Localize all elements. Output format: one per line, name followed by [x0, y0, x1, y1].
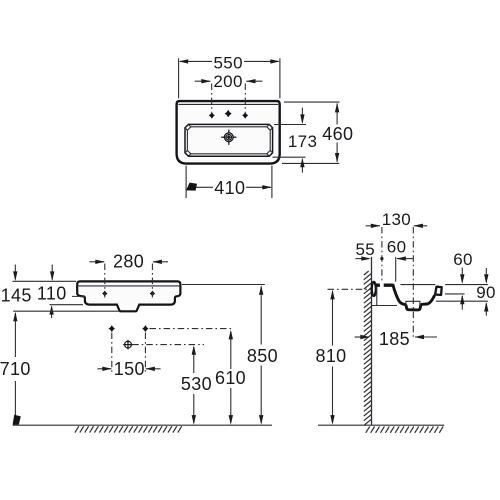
svg-text:530: 530 — [181, 374, 212, 394]
centerline horizontal at 344.6 — [132, 344, 204, 346]
dim 550 line and arrows — [180, 60, 279, 62]
dim 410 mangled left arrow — [186, 183, 197, 191]
faucet centerline left — [211, 84, 213, 113]
dim 280 centerline right — [151, 264, 153, 298]
dim 280 line and arrows — [89, 261, 104, 263]
dim 185 line and arrows — [355, 336, 368, 338]
dim 410 extension lines — [185, 166, 187, 199]
basin top-view inner deck line — [178, 103, 278, 105]
svg-text:60: 60 — [387, 237, 407, 256]
svg-text:145: 145 — [1, 285, 32, 305]
side hole centerline vertical — [381, 227, 383, 285]
drain hole symbol (circle-cross) — [123, 340, 133, 350]
basin inner bowl inner octagon — [187, 127, 270, 154]
dim 173 extension lines — [274, 124, 306, 126]
fixing hole lower-left — [109, 325, 115, 332]
dim 610 line and arrows — [230, 332, 232, 370]
svg-text:150: 150 — [114, 359, 145, 379]
dim 410 right arrow — [262, 185, 272, 189]
dim 60 mid arrow — [397, 258, 413, 260]
left floor line — [13, 424, 272, 426]
faucet hole left — [209, 112, 215, 119]
dim 550 extension lines — [178, 58, 180, 98]
dim 530 line and arrows — [193, 347, 195, 373]
svg-text:55: 55 — [355, 240, 375, 259]
wall hatching — [364, 271, 372, 425]
right ext line A (rim top level) — [400, 284, 435, 286]
svg-text:130: 130 — [382, 210, 411, 229]
side profile bowl outline — [393, 284, 435, 310]
svg-text:810: 810 — [315, 346, 346, 366]
svg-text:200: 200 — [213, 72, 242, 91]
front fixing hole left — [102, 291, 107, 297]
svg-text:410: 410 — [214, 178, 245, 198]
svg-text:90: 90 — [476, 283, 496, 302]
fixing hole lower-right — [142, 325, 148, 332]
svg-text:460: 460 — [322, 124, 353, 144]
svg-text:710: 710 — [0, 359, 31, 379]
dim 60 mid extension line — [395, 257, 397, 282]
centerline horizontal at 328.6 — [150, 328, 233, 330]
dim 60 right arrows — [461, 268, 463, 282]
dim 55/60 shared dot terminator — [380, 257, 383, 260]
dim 150 line and arrows — [97, 368, 111, 370]
dim 110 bottom line — [50, 304, 84, 306]
dim 460 line and arrows — [336, 104, 338, 125]
dim 710 line and arrows — [14, 313, 16, 357]
side profile deck — [375, 284, 393, 287]
svg-text:610: 610 — [215, 368, 246, 388]
dim 710 mangled bottom arrow — [13, 415, 21, 425]
dim 55 arrow — [355, 258, 368, 260]
left floor hatching — [75, 426, 182, 432]
dim 110 bottom arrow — [51, 307, 53, 319]
basin top-view outer body — [177, 101, 280, 164]
front fixing hole right — [150, 291, 155, 297]
svg-text:850: 850 — [247, 346, 278, 366]
right floor line — [318, 424, 444, 426]
dim 173 arrows — [301, 108, 303, 123]
svg-text:280: 280 — [113, 252, 144, 272]
right floor hatching — [366, 426, 443, 432]
side profile front rim hook — [435, 287, 442, 295]
dim 280 centerline left — [104, 264, 106, 298]
dim 145/110 top extension line — [13, 280, 77, 282]
side profile drain recess — [406, 301, 420, 306]
faucet hole right — [242, 112, 248, 119]
drain symbol — [221, 130, 236, 145]
front view inner deck line — [78, 285, 179, 287]
svg-text:550: 550 — [213, 53, 242, 72]
svg-text:60: 60 — [453, 250, 473, 269]
wall line — [371, 257, 373, 425]
right ext line B (rim bottom level) — [445, 293, 465, 295]
dim 460 extension lines — [284, 101, 340, 103]
side mounting axis dash-dot — [328, 288, 375, 290]
basin inner bowl outer octagon — [185, 124, 273, 156]
front view body — [77, 281, 180, 311]
faucet hole center — [225, 110, 232, 118]
side profile under-deck vertical — [376, 287, 378, 305]
dim 810 line and arrows — [332, 291, 334, 346]
dim 130 line and arrows — [366, 225, 380, 227]
dim 410 line — [193, 186, 213, 188]
dim 200 line and arrows — [195, 80, 211, 82]
side drain centerline vertical — [412, 227, 414, 340]
side mounting oval — [372, 282, 376, 296]
dim 145 bottom line — [13, 310, 119, 312]
side profile under line — [372, 305, 398, 307]
dim 850 extension line — [182, 284, 265, 286]
centerline below hole lower-right — [144, 333, 146, 373]
dim 90 arrows — [485, 268, 487, 282]
dim 145 top arrow — [14, 265, 16, 280]
faucet centerline right — [244, 84, 246, 113]
basin bevel facet connectors — [185, 124, 273, 156]
right ext line C (front underside level) — [436, 300, 488, 302]
svg-text:110: 110 — [37, 284, 67, 304]
centerline below hole lower-left — [111, 333, 113, 373]
front view stray step line — [72, 295, 84, 297]
svg-text:185: 185 — [379, 329, 410, 349]
svg-text:173: 173 — [288, 132, 317, 151]
dim 850 line and arrows — [260, 287, 262, 345]
dim 110 top arrow — [51, 265, 53, 280]
